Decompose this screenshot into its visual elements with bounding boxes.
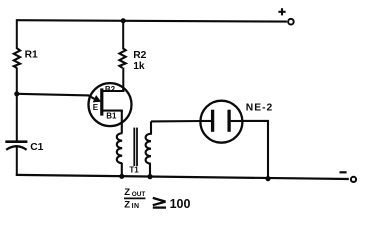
formula Zout — [124, 187, 145, 198]
label R1 — [25, 50, 38, 61]
resistor R2 — [119, 48, 125, 68]
svg-text:IN: IN — [132, 203, 140, 210]
wire node A to emitter — [17, 94, 89, 96]
wire left rail top — [16, 19, 18, 49]
svg-text:NE-2: NE-2 — [246, 103, 273, 114]
label B1 — [106, 112, 117, 121]
capacitor C1 — [5, 142, 27, 150]
node top rail junction dot — [121, 18, 126, 23]
- terminal — [340, 172, 357, 182]
svg-text:B2: B2 — [105, 85, 116, 94]
formula 100 — [170, 197, 191, 211]
svg-text:100: 100 — [170, 197, 191, 211]
wire secondary to NE-2 — [151, 120, 202, 123]
svg-text:R1: R1 — [25, 50, 38, 61]
label C1 — [30, 142, 43, 153]
label 1k — [133, 61, 145, 72]
svg-text:B1: B1 — [106, 112, 117, 121]
node NE-2 bottom rail dot — [265, 176, 270, 181]
label R2 — [133, 50, 146, 61]
neon lamp NE-2 — [200, 101, 242, 143]
svg-text:C1: C1 — [30, 142, 43, 153]
svg-text:R2: R2 — [133, 50, 146, 61]
transistor Q1 B2 lead — [102, 89, 124, 91]
transistor Q1 emitter arrow — [89, 95, 102, 102]
svg-text:OUT: OUT — [132, 191, 146, 198]
node T1 primary bottom dot — [119, 174, 124, 179]
wire bottom rail — [16, 175, 349, 179]
svg-text:Z: Z — [124, 199, 130, 210]
wire B1 to transformer primary — [121, 111, 123, 134]
label B2 — [105, 85, 116, 94]
transformer T1 secondary winding — [146, 121, 151, 176]
transistor Q1 circle — [89, 83, 132, 126]
formula greater-equal sign — [153, 198, 166, 208]
wire top rail to R2 — [122, 21, 124, 49]
wire NE-2 to bottom rail — [242, 121, 268, 179]
svg-text:1k: 1k — [133, 61, 145, 72]
wire C1 to bottom rail — [16, 147, 18, 176]
svg-text:E: E — [93, 103, 99, 112]
svg-text:Z: Z — [124, 187, 130, 198]
wire R2 to transistor B2 — [122, 68, 124, 92]
+ terminal — [278, 8, 293, 24]
formula Zin — [124, 199, 139, 210]
label E — [93, 103, 99, 112]
transformer T1 core — [134, 128, 137, 166]
formula fraction bar — [124, 197, 145, 199]
label T1 — [129, 165, 139, 174]
transistor Q1 B1 lead — [102, 111, 122, 112]
resistor R1 — [14, 48, 20, 68]
transformer T1 primary winding — [117, 133, 122, 176]
wire R1 to node A — [16, 68, 18, 94]
node A junction dot — [14, 91, 19, 96]
wire top rail — [17, 20, 287, 21]
svg-text:T1: T1 — [129, 165, 139, 174]
label NE-2 — [246, 103, 273, 114]
node T1 secondary bottom dot — [147, 174, 152, 179]
transistor Q1 base bar — [100, 88, 103, 115]
wire node A to C1 — [16, 94, 18, 141]
